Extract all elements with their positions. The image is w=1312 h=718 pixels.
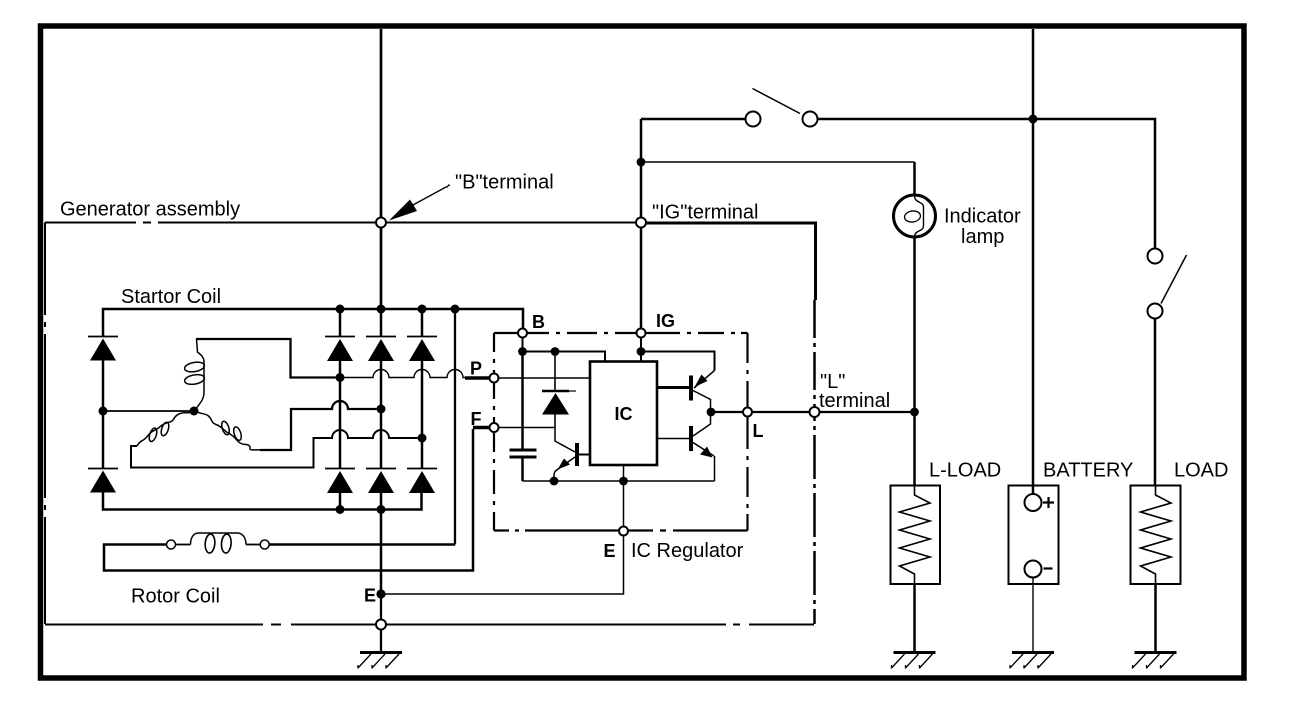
svg-text:LOAD: LOAD	[1174, 460, 1228, 482]
wire lamp feed horizontal y=162	[645, 161, 915, 163]
resistor L-LOAD box	[891, 486, 941, 585]
wire lamp feed vertical	[913, 162, 916, 195]
node E terminal of generator (open circle)	[376, 620, 386, 630]
battery plus terminal circle	[1025, 494, 1042, 511]
lamp filament detail	[915, 197, 924, 237]
wire IG vertical down to IG terminal	[640, 119, 643, 218]
diode D9 (zener) lead	[554, 352, 556, 391]
wire SW2 to LOAD	[1154, 319, 1157, 486]
arrow pointing to B terminal	[412, 185, 450, 206]
wire field feed column x=455	[454, 309, 456, 545]
wire B vertical from top border to B terminal	[380, 29, 383, 218]
wire internal B bus to IC	[523, 352, 606, 362]
svg-text:B: B	[532, 312, 545, 332]
capacitor C1 plates	[510, 450, 537, 457]
node F terminal of regulator (open circle)	[490, 423, 499, 432]
node dot left column	[99, 407, 108, 416]
battery minus terminal circle	[1025, 561, 1042, 578]
wire coil to slip ring	[246, 544, 260, 546]
wire rotor to F terminal	[104, 429, 473, 571]
diode D6 lower (col 381)	[380, 409, 383, 469]
wire L-LOAD to ground	[913, 584, 916, 652]
wire LOAD to ground	[1154, 584, 1157, 652]
rotor slip ring right	[260, 540, 269, 549]
node dot B bus left	[518, 347, 527, 356]
IC regulator box top edge (dash-dot)	[494, 332, 748, 334]
wire F line	[499, 427, 556, 429]
node B terminal (open circle)	[376, 218, 386, 228]
IC regulator box bottom edge (dash-dot)	[494, 529, 748, 531]
rotor slip ring left	[167, 540, 176, 549]
transistor Q1 base lead to IC	[579, 454, 590, 456]
battery box	[1009, 486, 1059, 585]
node dots on top bus	[336, 305, 345, 314]
capacitor C1 bottom lead	[521, 459, 524, 482]
lamp indicator lamp circle	[894, 195, 936, 237]
node P terminal of regulator (open circle)	[490, 374, 499, 383]
switch SW2 contact circles	[1148, 249, 1163, 264]
wire generator L to lamp line junction	[820, 411, 915, 413]
wire L node to regulator L terminal	[715, 411, 743, 413]
ground symbol generator	[358, 653, 402, 669]
wire phase3 output staircase to col381	[260, 401, 377, 450]
switch SW1 contact circles	[746, 112, 761, 127]
wire slip ring to coil	[176, 544, 191, 546]
svg-text:"B"terminal: "B"terminal	[455, 172, 554, 194]
diode D4 lower (col 340)	[339, 378, 342, 469]
battery minus sign	[1044, 567, 1053, 569]
transistor Q1 emitter with arrow	[554, 457, 575, 480]
stator coil phase 3 (lower-right)	[196, 411, 261, 450]
stator rectifier top bus	[103, 309, 523, 337]
svg-text:IC Regulator: IC Regulator	[631, 540, 744, 562]
wire IC bottom to ground bus	[623, 465, 625, 481]
rectifier bottom bus	[103, 493, 422, 510]
wire battery vertical from top border	[1032, 29, 1035, 494]
node L terminal of regulator (open circle)	[743, 408, 752, 417]
svg-text:L-LOAD: L-LOAD	[929, 460, 1001, 482]
stator coil phase 2 (lower-left)	[137, 411, 195, 446]
wire E horizontal to regulator E	[381, 536, 624, 595]
wire B into regulator	[522, 338, 524, 352]
wire L terminal to generator edge	[752, 411, 810, 413]
resistor LOAD box	[1131, 486, 1181, 585]
wire phase2 output staircase to col422	[131, 430, 418, 468]
wire F stub	[473, 426, 490, 430]
transistor Q1 collector	[555, 428, 575, 453]
node dot phase3 to col381	[377, 405, 386, 414]
svg-text:E: E	[364, 586, 376, 606]
diode D7 upper (col 422)	[421, 309, 424, 337]
node dot L output	[707, 408, 716, 417]
svg-text:lamp: lamp	[961, 226, 1004, 248]
regulator internal ground bus	[523, 480, 715, 482]
wire P line into IC	[499, 377, 591, 379]
node B terminal of regulator (open circle)	[518, 329, 527, 338]
resistor L-LOAD zigzag	[900, 486, 931, 584]
IC block	[590, 362, 657, 466]
wire star point to left diode column	[103, 410, 194, 412]
switch SW2 lever	[1161, 255, 1187, 304]
wire ignition switch feed (top horizontal y=119)	[641, 119, 1155, 249]
svg-text:Indicator: Indicator	[944, 206, 1021, 228]
wire IG into regulator	[640, 338, 642, 362]
ground symbol L-LOAD	[892, 653, 936, 669]
diode D5 upper (col 381)	[380, 309, 383, 337]
IC regulator box right edge (dash-dot)	[746, 333, 748, 531]
wire IG terminal down to regulator	[640, 228, 643, 329]
wire battery minus to ground	[1032, 578, 1034, 653]
transistor Q3 base lead from IC	[657, 438, 689, 440]
svg-text:L: L	[753, 421, 764, 441]
transistor Q2 emitter with arrow (from IG bus)	[694, 371, 715, 389]
node dot phase1 to col340	[336, 373, 345, 382]
node dot IG bus	[637, 347, 646, 356]
rotor coil feed wire (top)	[269, 543, 455, 546]
transistor Q3 base bar	[689, 426, 693, 451]
svg-text:BATTERY: BATTERY	[1043, 460, 1133, 482]
svg-text:terminal: terminal	[819, 390, 890, 412]
IC regulator box left edge (dash-dot)	[493, 333, 495, 531]
node dot phase2 to col422	[418, 434, 427, 443]
generator assembly boundary left edge (dash-dot)	[44, 223, 46, 625]
node junction dot on ignition feed	[1029, 115, 1038, 124]
node IG terminal (open circle)	[636, 218, 646, 228]
stator star point dot	[190, 407, 199, 416]
svg-text:IC: IC	[615, 404, 633, 424]
battery plus sign	[1043, 497, 1054, 508]
node dot B bus diode tap	[551, 347, 560, 356]
stator coil phase 1 (vertical)	[195, 339, 205, 411]
diode D3 upper (col 340)	[339, 309, 342, 337]
capacitor C1 top lead	[521, 352, 524, 449]
svg-text:Startor Coil: Startor Coil	[121, 286, 221, 308]
diode D1 upper-left	[88, 336, 118, 338]
wire main E column down to E dot	[380, 493, 383, 594]
svg-text:Generator assembly: Generator assembly	[60, 199, 240, 221]
node junction dot L wire to lamp line	[910, 408, 919, 417]
svg-text:IG: IG	[656, 311, 675, 331]
wire E terminal to ground	[380, 594, 382, 652]
svg-text:Rotor Coil: Rotor Coil	[131, 586, 220, 608]
node E dot on main column	[376, 589, 385, 598]
ground symbol battery	[1010, 653, 1054, 669]
generator assembly boundary top edge (dash-dot)	[45, 222, 636, 224]
transistor Q2 collector to L node	[693, 391, 711, 409]
node L terminal of generator (open circle)	[810, 407, 820, 417]
svg-text:P: P	[470, 359, 482, 379]
transistor Q3 emitter with arrow to ground bus	[693, 443, 714, 457]
diode D8 lower (col 422)	[421, 438, 424, 469]
diode D2 lower-left	[102, 411, 105, 469]
node dot E tap on bus	[619, 477, 628, 486]
transistor Q2 base bar	[689, 376, 693, 401]
wire phase1 output to col340 and P	[196, 339, 336, 378]
wire B terminal down to rectifier bus	[380, 228, 383, 310]
generator assembly boundary right edge with IG wire segment	[646, 223, 816, 300]
rotor coil inductor	[191, 533, 247, 545]
resistor LOAD zigzag	[1141, 486, 1172, 584]
transistor Q3 collector from L node	[693, 412, 711, 436]
node dot Q1 emitter on bus	[550, 477, 559, 486]
node E terminal of regulator (open circle)	[619, 527, 628, 536]
svg-text:"IG"terminal: "IG"terminal	[652, 202, 758, 224]
wire lamp down to L junction and L-LOAD	[913, 237, 916, 485]
node IG terminal of regulator (open circle)	[637, 329, 646, 338]
svg-text:E: E	[604, 541, 616, 561]
wire ground bus to E terminal	[623, 481, 625, 527]
svg-text:F: F	[471, 409, 482, 429]
generator assembly boundary bottom edge (dash-dot)	[45, 624, 814, 626]
node junction dot lamp branch	[637, 158, 646, 167]
wire IG bus to output transistor	[641, 352, 715, 371]
switch SW1 lever	[753, 89, 801, 114]
transistor Q1 base bar	[575, 443, 579, 466]
ground symbol LOAD	[1133, 653, 1177, 669]
transistor Q2 base lead from IC	[657, 386, 689, 389]
